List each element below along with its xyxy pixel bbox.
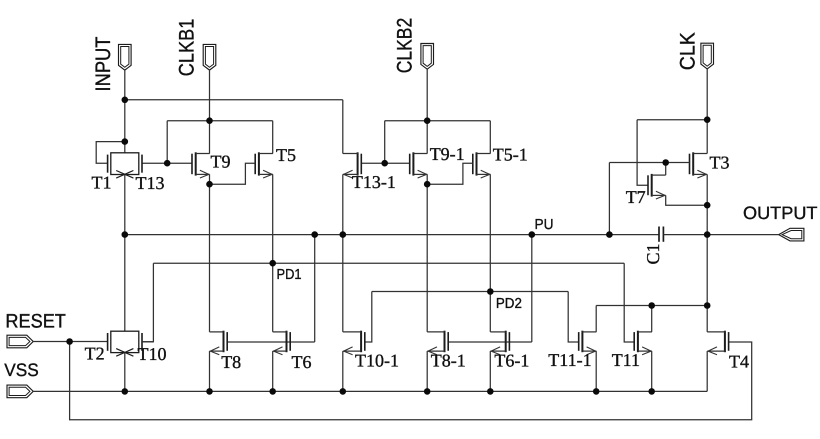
svg-text:INPUT: INPUT bbox=[92, 36, 115, 91]
label T9 bbox=[211, 152, 231, 172]
junction output / drains wire bbox=[704, 302, 711, 309]
label T10-1 bbox=[355, 351, 399, 371]
capacitor C1 bbox=[659, 227, 663, 242]
transistor T8-1 bbox=[427, 331, 448, 355]
label T7 bbox=[626, 187, 646, 207]
transistor T2/T10 dual box bbox=[108, 331, 142, 356]
svg-text:PD2: PD2 bbox=[496, 296, 522, 312]
label T11 bbox=[612, 350, 640, 370]
label T2 bbox=[85, 344, 105, 364]
terminal RESET bbox=[7, 335, 33, 348]
wire T3 gate / T7 drain bbox=[609, 163, 689, 235]
svg-text:T11-1: T11-1 bbox=[548, 350, 591, 370]
junction T1 gate tie bbox=[122, 138, 129, 145]
junction INPUT/top wire bbox=[122, 97, 129, 104]
junction CLK stem bbox=[704, 116, 711, 123]
label T8 bbox=[221, 352, 241, 372]
junction PU / T8 T6 gate riser bbox=[311, 231, 318, 238]
svg-text:T1: T1 bbox=[92, 173, 112, 193]
svg-text:T5-1: T5-1 bbox=[493, 145, 528, 165]
wire CLKB1 net bbox=[142, 70, 273, 163]
wire PU net bbox=[125, 174, 659, 342]
label VSS bbox=[4, 360, 39, 380]
junction CLKB2 stem bbox=[424, 117, 431, 124]
transistor T10-1 bbox=[343, 331, 365, 355]
junction T9 source bbox=[206, 181, 213, 188]
label T6 bbox=[292, 352, 312, 372]
svg-text:CLK: CLK bbox=[677, 32, 700, 70]
label T1 bbox=[92, 173, 112, 193]
svg-text:PD1: PD1 bbox=[277, 267, 302, 283]
svg-text:RESET: RESET bbox=[5, 311, 66, 333]
svg-text:CLKB1: CLKB1 bbox=[176, 19, 199, 77]
label CLK bbox=[677, 32, 700, 70]
transistor T9-1 bbox=[410, 152, 428, 178]
junction VSS bbox=[206, 388, 213, 395]
node PD1 label bbox=[277, 267, 302, 283]
label T8-1 bbox=[431, 351, 466, 371]
svg-text:T13-1: T13-1 bbox=[352, 172, 396, 192]
terminal CLKB1 bbox=[203, 44, 216, 70]
svg-text:T11: T11 bbox=[612, 350, 640, 370]
wire INPUT net bbox=[96, 70, 343, 163]
label T3 bbox=[710, 153, 730, 173]
label INPUT bbox=[92, 36, 115, 91]
junction VSS bbox=[648, 388, 655, 395]
transistor T9 bbox=[192, 152, 210, 178]
svg-text:T6-1: T6-1 bbox=[494, 351, 529, 371]
svg-text:CLKB2: CLKB2 bbox=[394, 18, 417, 74]
svg-text:T2: T2 bbox=[85, 344, 105, 364]
label RESET bbox=[5, 311, 66, 333]
wire PD1 net bbox=[142, 174, 634, 342]
junction VSS bbox=[487, 388, 494, 395]
wire CLKB2 net bbox=[361, 69, 490, 163]
transistor T6 bbox=[273, 331, 291, 355]
label T5-1 bbox=[493, 145, 528, 165]
label T10 bbox=[138, 344, 167, 364]
junction gate wire T13/T9 bbox=[164, 160, 171, 167]
label C1 bbox=[643, 243, 663, 264]
junction T11 drain bbox=[648, 302, 655, 309]
wire T10 gate stub bbox=[142, 341, 153, 343]
junction RESET split bbox=[66, 338, 73, 345]
transistor T3 bbox=[690, 152, 708, 178]
junction VSS bbox=[593, 388, 600, 395]
svg-text:T6: T6 bbox=[292, 352, 312, 372]
transistor T11 bbox=[634, 331, 652, 355]
wire CLK net bbox=[637, 69, 707, 185]
label T5 bbox=[276, 145, 296, 165]
terminal VSS bbox=[7, 385, 33, 398]
terminal CLKB2 bbox=[421, 44, 434, 70]
junction OUTPUT column bbox=[704, 231, 711, 238]
label T6-1 bbox=[494, 351, 529, 371]
junction VSS bbox=[424, 388, 431, 395]
node PU label bbox=[535, 217, 554, 233]
svg-text:T4: T4 bbox=[729, 352, 749, 372]
junction PD2 / T5-1 source bbox=[487, 288, 494, 295]
svg-text:VSS: VSS bbox=[4, 360, 39, 380]
svg-text:T5: T5 bbox=[276, 145, 296, 165]
label T13 bbox=[136, 173, 165, 193]
transistor T6-1 bbox=[490, 331, 509, 355]
svg-text:PU: PU bbox=[535, 217, 554, 233]
svg-text:T8: T8 bbox=[221, 352, 241, 372]
transistor T7 bbox=[648, 174, 666, 199]
transistor T11-1 bbox=[579, 331, 597, 355]
junction gate wire T13-1/T9-1 bbox=[381, 160, 388, 167]
label T11-1 bbox=[548, 350, 591, 370]
label OUTPUT bbox=[743, 203, 818, 223]
wire RESET net bbox=[33, 342, 752, 420]
terminal OUTPUT bbox=[779, 228, 804, 241]
terminal CLK bbox=[701, 43, 714, 69]
svg-text:C1: C1 bbox=[643, 243, 663, 264]
svg-text:T8-1: T8-1 bbox=[431, 351, 466, 371]
terminal INPUT bbox=[119, 44, 132, 70]
junction T9-1 source bbox=[424, 181, 431, 188]
label T13-1 bbox=[352, 172, 396, 192]
junction T3 source/T7 source bbox=[704, 202, 711, 209]
junction VSS bbox=[269, 388, 276, 395]
label CLKB2 bbox=[394, 18, 417, 74]
label CLKB1 bbox=[176, 19, 199, 77]
junction PU / T3 gate riser bbox=[606, 231, 613, 238]
svg-text:OUTPUT: OUTPUT bbox=[743, 203, 818, 223]
wire PD2 net bbox=[365, 174, 579, 342]
node PD2 label bbox=[496, 296, 522, 312]
label T4 bbox=[729, 352, 749, 372]
svg-text:T3: T3 bbox=[710, 153, 730, 173]
transistor T1/T13 dual box bbox=[108, 153, 142, 178]
junction PU / T8-1 T6-1 gate riser bbox=[529, 231, 536, 238]
transistor T5 bbox=[255, 152, 273, 178]
transistor T4 bbox=[707, 331, 728, 355]
wire T9 source node bbox=[210, 163, 256, 332]
wire VSS net bbox=[33, 351, 707, 391]
junction T7 drain / T3 gate bbox=[662, 159, 669, 166]
label T9-1 bbox=[430, 144, 465, 164]
wire OUTPUT net bbox=[596, 235, 779, 332]
transistor T13-1 bbox=[343, 152, 362, 178]
svg-text:T9-1: T9-1 bbox=[430, 144, 465, 164]
junction VSS bbox=[122, 388, 129, 395]
wire T9-1 source node bbox=[427, 163, 473, 332]
transistor T8 bbox=[210, 331, 228, 355]
svg-text:T9: T9 bbox=[211, 152, 231, 172]
transistor T5-1 bbox=[473, 152, 491, 178]
junction CLKB1 stem bbox=[206, 117, 213, 124]
junction PD1 / T5 source bbox=[269, 260, 276, 267]
junction PU / T1 column bbox=[122, 231, 129, 238]
junction PU / T13-1 source bbox=[340, 231, 347, 238]
svg-text:T10: T10 bbox=[138, 344, 167, 364]
junction VSS bbox=[340, 388, 347, 395]
svg-text:T13: T13 bbox=[136, 173, 165, 193]
svg-text:T10-1: T10-1 bbox=[355, 351, 399, 371]
wire T7 source / T3 source bbox=[666, 174, 708, 332]
svg-text:T7: T7 bbox=[626, 187, 646, 207]
